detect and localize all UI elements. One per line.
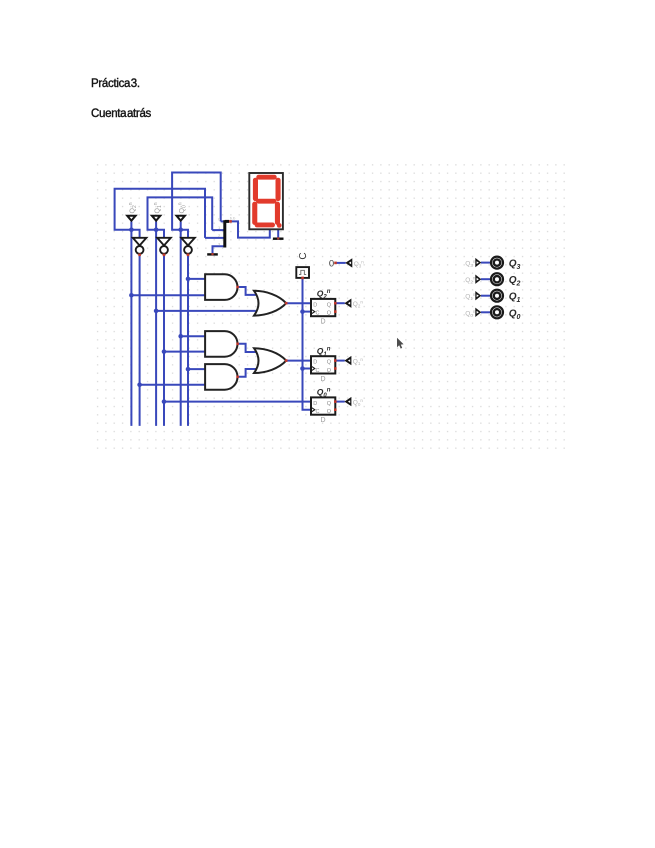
wire column Q1 vertical (155, 222, 157, 426)
wire tunnel to output pin Q0 (481, 311, 491, 313)
wire Q1 to OR1 input B (156, 310, 256, 312)
pin dot inverter2 out (163, 254, 166, 257)
ground GND1 (splitter leg3) (207, 253, 218, 256)
pin dot FF3 Q (334, 400, 337, 403)
wire inverter nQ0 output vertical (187, 255, 189, 426)
tunnel in Q2n (right) (465, 275, 481, 285)
pin dot FF1 Qb (334, 310, 337, 313)
wire tunnel to output pin Q3 (481, 262, 491, 264)
OR gate G4 (254, 291, 286, 316)
pin dot clock out (301, 277, 304, 280)
wire inverter nQ1 output vertical (163, 255, 165, 426)
pin dot AND2 out (236, 343, 239, 346)
junction Q1/netB (154, 227, 159, 232)
wire net A to splitter leg2 (205, 237, 224, 239)
pin dot AND3 out (236, 376, 239, 379)
wire net C feedback Q0 (172, 173, 221, 238)
tunnel in Q1n (right) (465, 291, 481, 301)
junction Q0/AND2 (178, 334, 183, 339)
wire net C to splitter leg0 (221, 220, 224, 222)
tunnel Q0n (top, facing down) (174, 202, 187, 222)
junction clock/FF2 (300, 366, 305, 371)
wire OR2 output to FF2 D (286, 360, 311, 362)
constant 0 (329, 258, 334, 269)
wire net B to splitter leg1 (212, 229, 223, 231)
wire FF2 Q to tunnel (335, 360, 345, 362)
pin dot splitter root (229, 220, 232, 223)
wire Q2 to AND1 input B (131, 294, 205, 296)
wire OR1 output to FF1 D (286, 302, 311, 304)
junction nQ0/AND1 (186, 277, 191, 282)
junction Q1/OR1 (154, 309, 159, 314)
wire clock stub to FF2 (303, 368, 312, 370)
pin dot FF1 Q (334, 302, 337, 305)
wire display pin to ground (277, 229, 279, 237)
svg-text:Q: Q (327, 401, 332, 407)
wire AND2 output to OR2 input A (238, 344, 256, 352)
ground GND2 (display common) (273, 237, 284, 240)
svg-text:Q: Q (327, 409, 332, 415)
grid background (96, 164, 566, 452)
flip-flop FF1 Q2 (311, 289, 335, 326)
svg-text:Q: Q (327, 360, 332, 366)
pin dot FF3 Qb (334, 408, 337, 411)
wire AND3 output to OR2 input B (238, 369, 256, 377)
svg-text:D: D (321, 417, 326, 424)
tunnel out FF3 Q0n (344, 397, 363, 407)
svg-text:Q: Q (327, 311, 332, 317)
pin dot inverter1 out (138, 254, 141, 257)
wire nQ1 to AND2 input B (164, 351, 206, 353)
pin dot OR2 out (285, 359, 288, 362)
junction clock/FF1 (300, 309, 305, 314)
output pin Q1 (491, 290, 520, 305)
inverter U1 (nQ2, facing down) (133, 238, 147, 254)
svg-text:D: D (321, 319, 326, 326)
junction Q2/AND1 (129, 293, 134, 298)
tunnel Q1n (top, facing down) (150, 202, 163, 222)
svg-text:D: D (313, 401, 317, 407)
junction nQ1/FF3 (162, 399, 167, 404)
pin dot FF2 Q (334, 359, 337, 362)
output pin Q3 (491, 257, 520, 272)
wire splitter root to display (230, 221, 270, 237)
wire tunnel to output pin Q1 (481, 295, 491, 297)
flip-flop FF3 Q0 (311, 387, 335, 424)
AND gate G2 (205, 331, 237, 357)
wire Q0 to AND2 input A (181, 335, 206, 337)
tunnel in Q3n (right) (465, 258, 481, 268)
output pin Q2 (491, 273, 520, 288)
wire nQ0 to AND3 input A (188, 368, 206, 370)
wire column Q0 vertical (180, 222, 182, 426)
svg-text:b.b: b.b (230, 216, 236, 221)
wire inverter nQ2 output vertical (139, 255, 141, 426)
junction nQ1/AND2 (162, 349, 167, 354)
tunnel Q3n (constant) (345, 258, 364, 268)
pin dot AND1 out (236, 286, 239, 289)
svg-text:0: 0 (329, 258, 334, 269)
mouse cursor (397, 338, 404, 349)
tunnel in Q0n (right) (465, 308, 481, 318)
output pin Q0 (491, 306, 520, 321)
wire nQ0 to AND1 input A (188, 278, 206, 280)
tunnel Q2n (top, facing down) (125, 202, 138, 222)
wire FF1 Q to tunnel (335, 302, 345, 304)
svg-text:C: C (316, 409, 320, 415)
wire FF3 Q to tunnel (335, 401, 345, 403)
AND gate G3 (205, 364, 237, 390)
wire constant 0 to tunnel Q3 (336, 262, 346, 264)
pin dot inverter3 out (187, 254, 190, 257)
clock CLK1 (296, 252, 309, 278)
svg-text:D: D (313, 360, 317, 366)
OR gate G5 (254, 348, 286, 373)
flip-flop FF2 Q1 (311, 346, 335, 383)
junction Q0/netC (178, 227, 183, 232)
pin dot OR1 out (285, 302, 288, 305)
wire clock line vertical (303, 278, 312, 410)
svg-text:Q: Q (327, 368, 332, 374)
wire column Q2 vertical (130, 222, 132, 426)
svg-text:D: D (313, 302, 317, 308)
wire clock stub to FF1 (303, 311, 312, 313)
inverter U2 (nQ1, facing down) (157, 238, 171, 254)
7-segment display DS1 (249, 173, 283, 229)
junction nQ0/AND3 (186, 367, 191, 372)
splitter SP1 (218, 216, 236, 248)
wire nQ2 to AND3 input B (140, 384, 206, 386)
AND gate G1 (205, 274, 237, 300)
svg-text:D: D (321, 376, 326, 383)
wire AND1 output to OR1 input A (238, 287, 256, 295)
pin dot FF2 Qb (334, 367, 337, 370)
wire net B feedback Q1 (148, 197, 213, 237)
tunnel out FF1 Q2n (344, 299, 363, 309)
wire splitter leg3 to ground (213, 246, 224, 253)
svg-text:C: C (298, 252, 309, 259)
wire tunnel to output pin Q2 (481, 278, 491, 280)
inverter U3 (nQ0, facing down) (181, 238, 195, 254)
wire nQ1 to FF3 D input (164, 401, 311, 403)
svg-text:C: C (316, 311, 320, 317)
pin dot constant out (334, 262, 337, 265)
junction Q2/netA (129, 227, 134, 232)
wire net A feedback Q2: left vertical (115, 189, 205, 238)
junction nQ2/AND3 (137, 382, 142, 387)
svg-text:C: C (316, 368, 320, 374)
svg-text:Q: Q (327, 302, 332, 308)
tunnel out FF2 Q1n (344, 356, 363, 366)
